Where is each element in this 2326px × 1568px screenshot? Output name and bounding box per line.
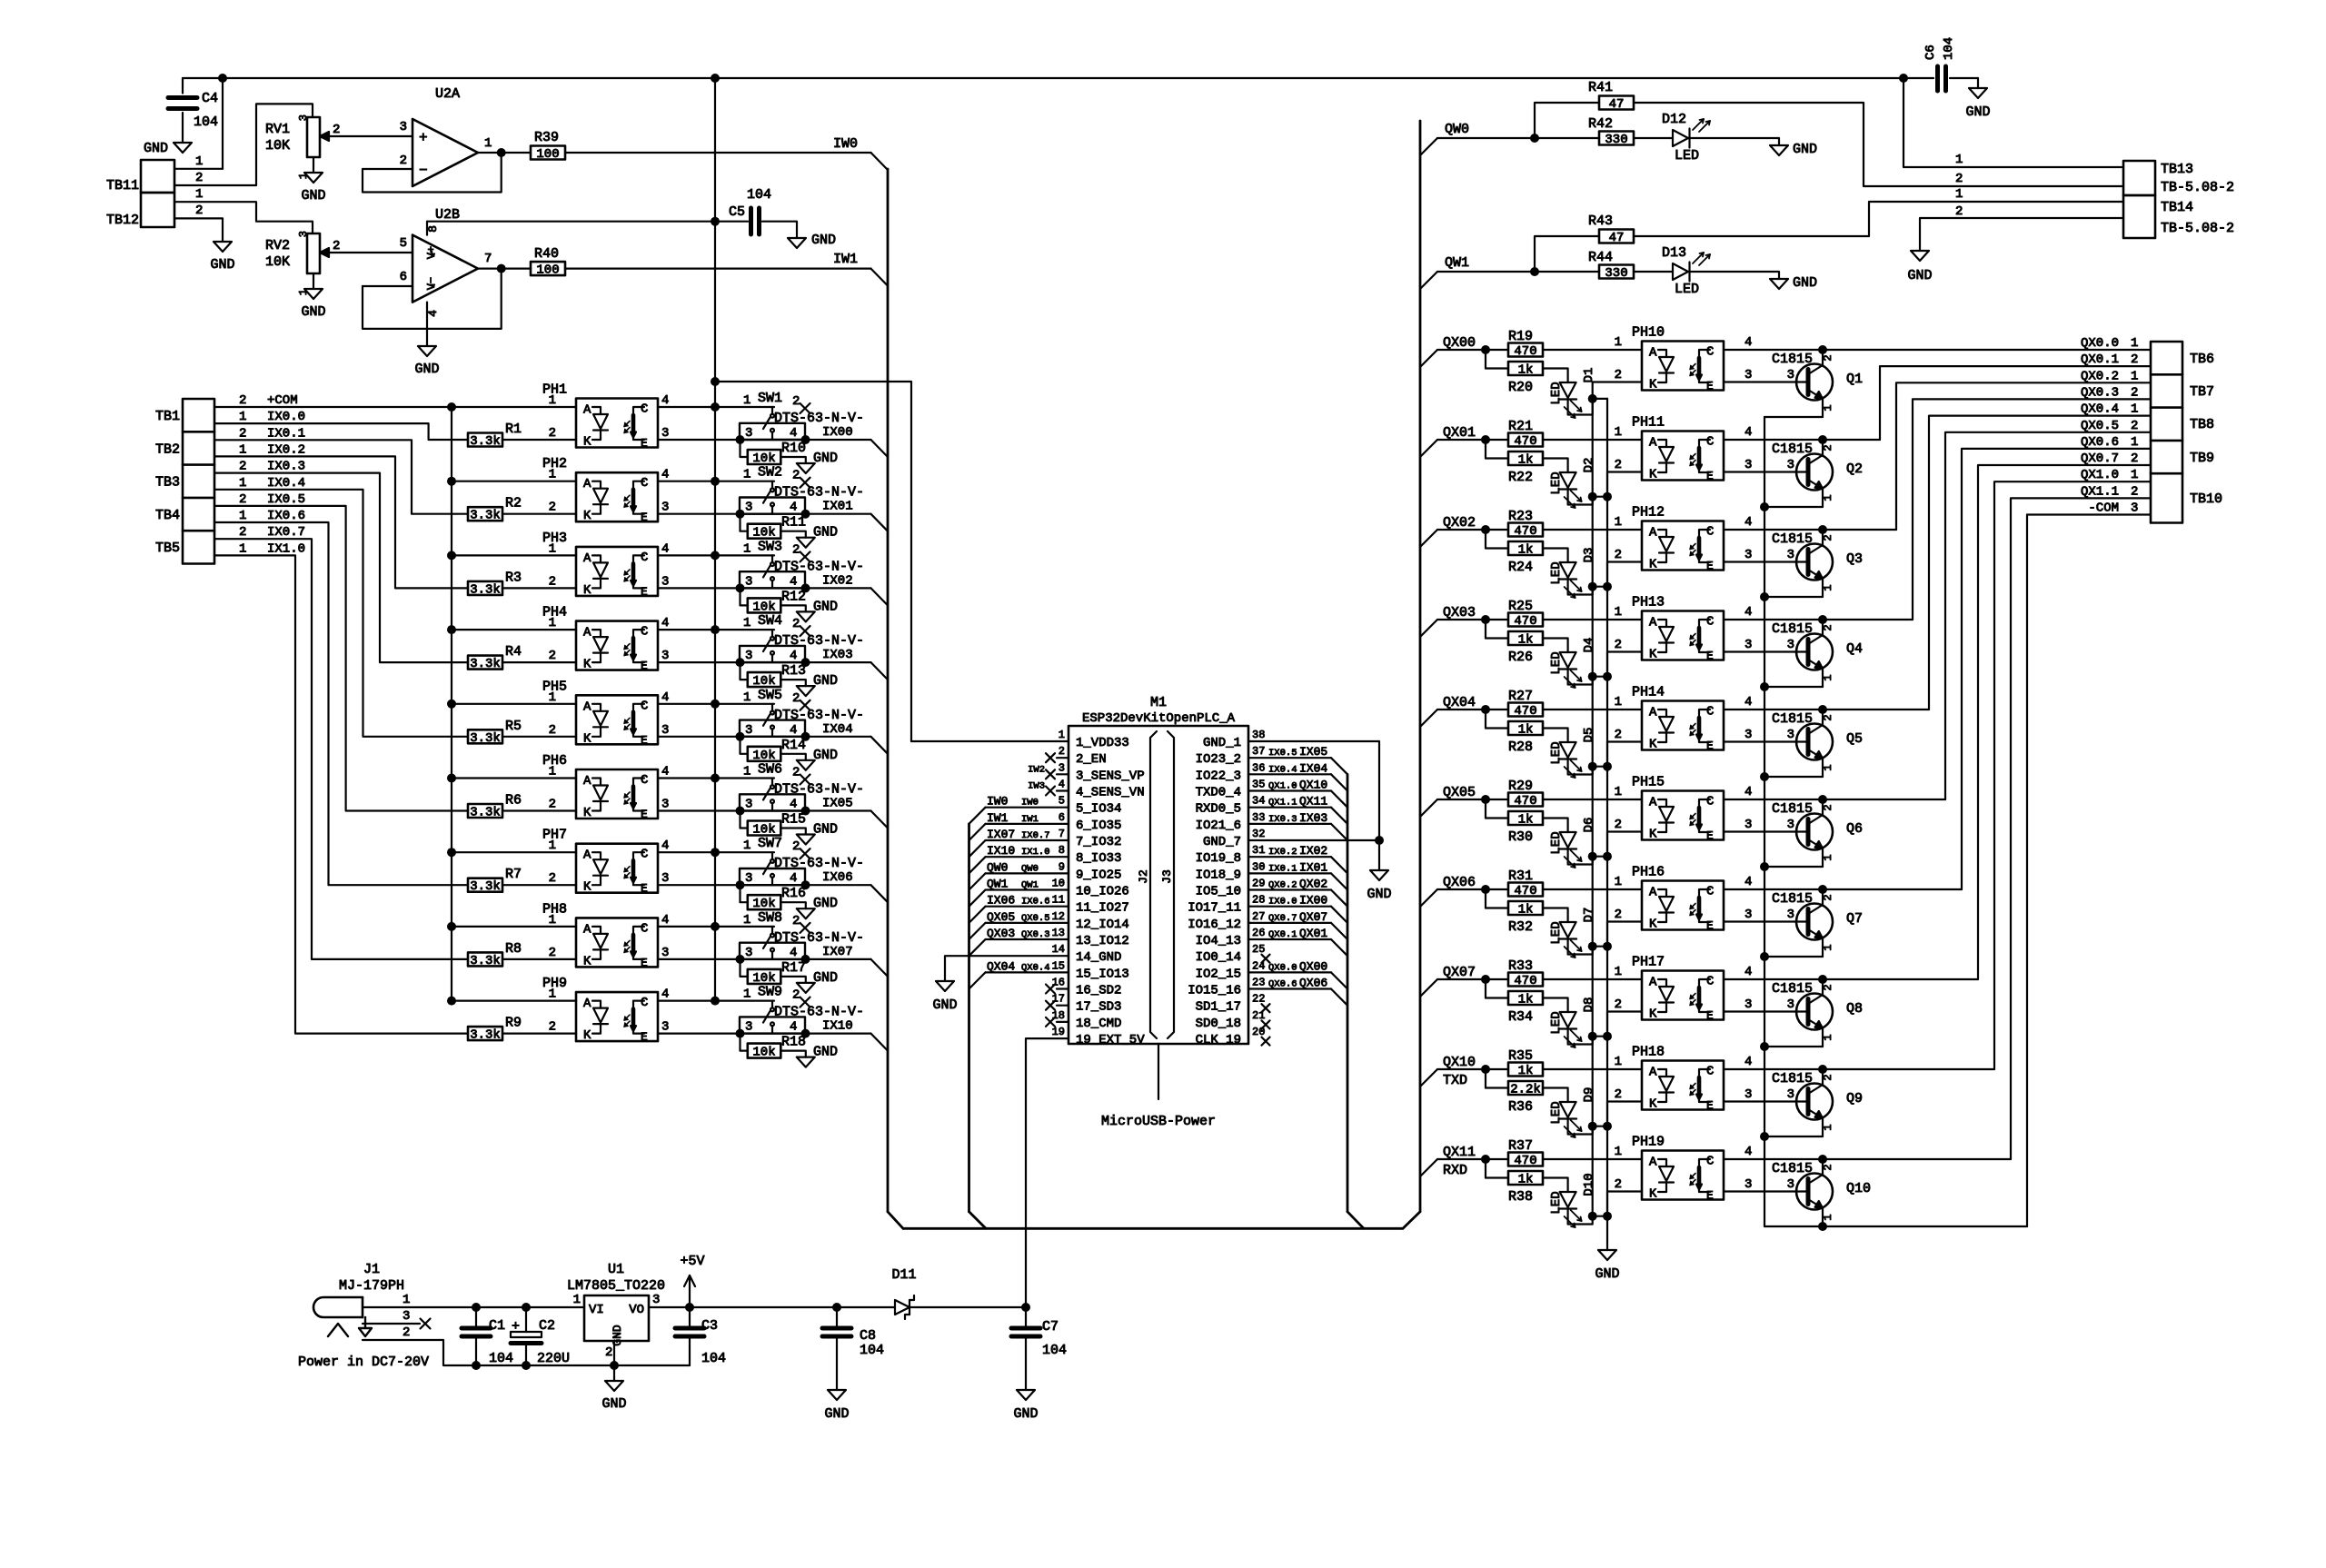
svg-text:GND: GND [1367,887,1391,902]
svg-text:QX03: QX03 [987,927,1015,940]
svg-text:2: 2 [2131,352,2138,367]
svg-text:15_IO13: 15_IO13 [1076,967,1129,981]
svg-text:Q2: Q2 [1846,461,1863,477]
svg-text:1: 1 [743,913,750,928]
svg-text:4: 4 [1744,605,1752,620]
svg-text:QX02: QX02 [1443,515,1476,531]
svg-text:IX04: IX04 [1299,761,1327,775]
svg-text:IX0.4: IX0.4 [267,476,305,491]
svg-text:IO4_13: IO4_13 [1196,934,1241,948]
svg-text:1: 1 [573,1293,581,1307]
svg-text:3: 3 [745,798,752,812]
svg-text:3: 3 [661,871,669,886]
svg-text:LED: LED [1549,382,1564,404]
svg-text:16_SD2: 16_SD2 [1076,984,1121,998]
svg-text:QX0.2: QX0.2 [1268,880,1297,891]
svg-text:R17: R17 [781,960,806,976]
svg-text:3.3k: 3.3k [470,806,501,820]
svg-text:IX0.5: IX0.5 [267,492,305,507]
svg-text:2: 2 [549,723,556,738]
svg-text:TB3: TB3 [155,475,180,491]
svg-text:C1815: C1815 [1772,531,1813,547]
svg-text:8: 8 [426,225,440,233]
svg-text:4: 4 [661,765,669,779]
svg-text:C: C [1706,345,1714,360]
svg-text:4: 4 [1744,1055,1752,1069]
svg-text:PH11: PH11 [1632,415,1665,431]
svg-text:14: 14 [1052,943,1065,956]
svg-text:23: 23 [1252,977,1265,989]
svg-text:CLK_19: CLK_19 [1196,1033,1241,1047]
svg-text:1: 1 [2131,435,2138,450]
svg-text:11: 11 [1052,894,1065,907]
svg-text:A: A [1649,526,1657,541]
svg-text:E: E [1706,380,1714,393]
svg-text:3: 3 [1787,818,1794,832]
svg-text:Power in DC7-20V: Power in DC7-20V [298,1355,429,1370]
svg-text:Q9: Q9 [1846,1091,1863,1107]
svg-text:1: 1 [1615,605,1622,620]
svg-text:K: K [1649,468,1657,482]
svg-text:K: K [1649,1187,1657,1202]
svg-text:4: 4 [790,426,797,441]
svg-text:IW2: IW2 [1028,764,1045,775]
svg-text:PH13: PH13 [1632,595,1665,610]
svg-text:14_GND: 14_GND [1076,950,1121,965]
svg-text:IO19_8: IO19_8 [1196,851,1241,866]
svg-text:Q1: Q1 [1846,372,1863,387]
svg-text:24: 24 [1252,959,1265,972]
svg-text:3: 3 [1787,908,1794,922]
svg-text:104: 104 [1042,1343,1067,1358]
svg-text:104: 104 [489,1351,513,1366]
svg-text:3: 3 [745,1020,752,1035]
svg-text:1: 1 [549,913,556,928]
svg-text:IX1.0: IX1.0 [267,541,305,556]
svg-text:DTS-63-N-V-: DTS-63-N-V- [774,559,864,574]
svg-text:1: 1 [743,765,750,779]
svg-text:1: 1 [1615,515,1622,530]
svg-text:100: 100 [536,263,559,278]
svg-text:IO18_9: IO18_9 [1196,868,1241,882]
svg-text:1k: 1k [1518,993,1534,1007]
svg-text:A: A [583,551,591,566]
svg-text:E: E [641,733,648,747]
svg-text:10k: 10k [752,452,775,466]
svg-text:QW1: QW1 [1445,255,1469,271]
svg-text:1k: 1k [1518,1173,1534,1187]
svg-text:Q5: Q5 [1846,731,1863,747]
svg-text:+5V: +5V [680,1254,704,1269]
svg-text:470: 470 [1514,794,1536,809]
svg-text:IW3: IW3 [1028,781,1045,792]
svg-text:1: 1 [1822,584,1834,590]
svg-text:2: 2 [792,542,800,557]
svg-text:C1815: C1815 [1772,1161,1813,1176]
svg-text:IX03: IX03 [1299,811,1327,825]
svg-text:ESP32DevKitOpenPLC_A: ESP32DevKitOpenPLC_A [1082,711,1236,726]
svg-text:1: 1 [743,987,750,1002]
svg-text:1: 1 [195,154,203,169]
svg-text:3: 3 [1744,1177,1752,1192]
svg-text:QX1.0: QX1.0 [1268,781,1297,792]
svg-text:GND: GND [1793,142,1817,157]
svg-text:QX05: QX05 [987,910,1015,924]
svg-text:J3: J3 [1160,869,1174,884]
svg-text:U1: U1 [608,1262,624,1277]
svg-text:K: K [1649,648,1657,662]
svg-text:1: 1 [549,468,556,482]
svg-text:IO16_12: IO16_12 [1188,918,1241,932]
svg-text:R39: R39 [534,130,559,145]
svg-text:TB8: TB8 [2190,417,2214,432]
svg-text:K: K [583,731,591,746]
svg-text:LED: LED [1675,282,1699,297]
svg-text:8: 8 [1059,844,1065,857]
svg-text:IX0.2: IX0.2 [267,442,305,457]
svg-text:GND: GND [1013,1406,1038,1422]
svg-text:R29: R29 [1508,779,1533,794]
svg-text:TXD0_4: TXD0_4 [1196,786,1241,800]
svg-text:3: 3 [403,1309,410,1324]
svg-text:A: A [1649,1066,1657,1080]
svg-text:PH17: PH17 [1632,955,1665,970]
svg-text:R38: R38 [1508,1189,1533,1205]
svg-text:IO22_3: IO22_3 [1196,769,1241,783]
svg-text:R16: R16 [781,886,806,901]
svg-text:2: 2 [549,946,556,960]
svg-text:38: 38 [1252,729,1265,741]
svg-text:1: 1 [1615,425,1622,440]
svg-text:37: 37 [1252,745,1265,758]
svg-text:QX00: QX00 [1443,335,1476,351]
svg-text:GND: GND [414,362,439,377]
svg-text:GND: GND [813,896,838,911]
svg-text:470: 470 [1514,434,1536,449]
svg-text:2: 2 [403,1325,410,1340]
svg-text:4: 4 [1744,335,1752,350]
svg-text:1: 1 [2131,402,2138,417]
svg-text:R44: R44 [1588,250,1613,265]
svg-text:2: 2 [792,394,800,409]
svg-text:GND: GND [1595,1266,1619,1282]
svg-text:QX0.2: QX0.2 [2081,369,2119,383]
svg-text:J1: J1 [363,1262,380,1277]
svg-text:4: 4 [426,310,440,317]
svg-text:1: 1 [743,839,750,853]
svg-text:2: 2 [1822,804,1834,810]
svg-text:K: K [583,509,591,523]
svg-text:4: 4 [661,839,669,853]
svg-text:E: E [641,437,648,451]
svg-text:104: 104 [194,114,218,130]
svg-text:1: 1 [1822,1034,1834,1040]
svg-text:3: 3 [661,574,669,589]
svg-text:D5: D5 [1582,728,1596,743]
svg-text:4: 4 [1744,875,1752,889]
svg-text:QX07: QX07 [1299,910,1327,924]
svg-text:−: − [419,163,428,179]
svg-text:10k: 10k [752,897,775,911]
svg-text:2: 2 [1615,728,1622,742]
svg-text:R36: R36 [1508,1099,1533,1115]
svg-text:D1: D1 [1582,368,1596,383]
svg-text:1: 1 [549,541,556,556]
svg-text:IX0.1: IX0.1 [267,426,305,441]
svg-text:4: 4 [790,871,797,886]
svg-text:33: 33 [1252,811,1265,824]
svg-text:GND: GND [811,233,836,248]
svg-text:C1815: C1815 [1772,891,1813,907]
svg-text:LED: LED [1549,1101,1564,1124]
svg-text:3: 3 [1787,368,1794,382]
svg-text:R35: R35 [1508,1048,1533,1064]
svg-text:R37: R37 [1508,1138,1533,1154]
svg-text:3: 3 [661,426,669,441]
svg-text:C: C [641,625,648,640]
svg-text:17_SD3: 17_SD3 [1076,1000,1121,1015]
svg-text:20: 20 [1252,1026,1265,1038]
svg-text:IW1: IW1 [1021,814,1039,825]
svg-text:35: 35 [1252,779,1265,791]
svg-text:2: 2 [195,203,203,218]
svg-text:7: 7 [1059,828,1065,840]
svg-text:K: K [583,435,591,450]
svg-text:R26: R26 [1508,650,1533,665]
svg-text:R43: R43 [1588,213,1613,229]
svg-text:2: 2 [1822,984,1834,990]
svg-text:1: 1 [239,509,246,523]
svg-text:3.3k: 3.3k [470,509,501,523]
svg-text:QX00: QX00 [1299,959,1327,973]
svg-text:1k: 1k [1518,633,1534,648]
svg-text:2: 2 [1615,908,1622,922]
svg-text:QX03: QX03 [1443,605,1476,620]
svg-text:TB-5.08-2: TB-5.08-2 [2161,180,2234,195]
svg-text:3: 3 [745,574,752,589]
svg-text:29: 29 [1252,878,1265,890]
svg-text:2: 2 [1615,1087,1622,1102]
svg-text:19_EXT_5V: 19_EXT_5V [1076,1033,1145,1047]
svg-text:R6: R6 [505,793,522,809]
svg-text:3: 3 [1787,1177,1794,1192]
svg-text:MicroUSB-Power: MicroUSB-Power [1101,1114,1216,1129]
svg-text:1: 1 [297,173,310,179]
svg-text:TB14: TB14 [2161,200,2193,215]
svg-text:10k: 10k [752,971,775,986]
svg-text:D6: D6 [1582,818,1596,833]
svg-text:SW2: SW2 [758,465,782,481]
svg-text:RXD0_5: RXD0_5 [1196,802,1241,817]
svg-text:2: 2 [1615,458,1622,472]
svg-text:QW1: QW1 [987,878,1009,891]
svg-text:10k: 10k [752,600,775,614]
svg-text:U2A: U2A [435,86,460,102]
svg-text:QX06: QX06 [1299,977,1327,990]
svg-text:D8: D8 [1582,997,1596,1013]
svg-text:C: C [641,476,648,491]
svg-text:K: K [583,1028,591,1043]
svg-text:Q7: Q7 [1846,911,1863,927]
svg-text:K: K [1649,828,1657,842]
svg-text:3: 3 [661,501,669,515]
svg-text:16: 16 [1052,977,1065,989]
svg-text:4: 4 [790,798,797,812]
svg-text:4: 4 [1059,779,1065,791]
svg-text:1: 1 [549,690,556,705]
svg-text:TXD: TXD [1443,1073,1467,1088]
svg-text:C1815: C1815 [1772,442,1813,457]
svg-text:1: 1 [239,410,246,424]
svg-text:Q3: Q3 [1846,551,1863,567]
svg-text:V+: V+ [425,246,438,259]
svg-text:QX0.6: QX0.6 [1268,979,1297,990]
svg-text:K: K [1649,1097,1657,1112]
svg-text:IX03: IX03 [822,648,853,662]
svg-text:K: K [1649,558,1657,572]
svg-text:1: 1 [1822,674,1834,680]
svg-text:E: E [1706,829,1714,843]
svg-text:A: A [583,403,591,418]
svg-text:GND: GND [813,822,838,838]
svg-text:IX05: IX05 [1299,745,1327,759]
svg-text:1k: 1k [1518,903,1534,918]
svg-text:3: 3 [1059,761,1065,774]
svg-text:470: 470 [1514,524,1536,539]
svg-text:1: 1 [549,765,556,779]
svg-text:1: 1 [484,136,492,151]
svg-text:10: 10 [1052,878,1065,890]
svg-text:DTS-63-N-V-: DTS-63-N-V- [774,1005,864,1020]
svg-text:K: K [583,806,591,820]
svg-text:3: 3 [1744,997,1752,1012]
svg-text:2: 2 [549,798,556,812]
svg-text:5_IO34: 5_IO34 [1076,802,1121,817]
svg-text:4: 4 [790,574,797,589]
svg-text:K: K [1649,738,1657,752]
svg-text:1: 1 [549,393,556,408]
svg-text:2: 2 [239,492,246,507]
svg-text:17: 17 [1052,993,1065,1006]
svg-text:A: A [583,997,591,1011]
svg-text:5: 5 [1059,795,1065,808]
svg-text:QX04: QX04 [1443,695,1476,710]
svg-text:2: 2 [1059,745,1065,758]
svg-text:3: 3 [297,114,310,121]
svg-text:10k: 10k [752,823,775,838]
svg-text:IW0: IW0 [987,795,1008,809]
svg-text:10k: 10k [752,1046,775,1060]
svg-text:R27: R27 [1508,689,1533,704]
svg-text:PH19: PH19 [1632,1135,1665,1150]
svg-text:K: K [1649,378,1657,392]
svg-text:GND: GND [813,673,838,689]
svg-text:10k: 10k [752,674,775,689]
svg-text:330: 330 [1605,266,1627,281]
svg-text:2: 2 [400,154,407,168]
svg-text:2: 2 [792,469,800,483]
svg-text:R34: R34 [1508,1009,1533,1025]
svg-text:QX0.1: QX0.1 [1268,929,1297,940]
svg-text:1: 1 [1615,965,1622,979]
svg-text:10K: 10K [265,138,290,154]
svg-text:GND_7: GND_7 [1203,835,1241,849]
svg-text:C5: C5 [729,204,745,220]
svg-text:DTS-63-N-V-: DTS-63-N-V- [774,782,864,798]
svg-text:12_IO14: 12_IO14 [1076,918,1129,932]
svg-text:TB2: TB2 [155,442,180,457]
svg-text:330: 330 [1605,133,1627,147]
svg-text:6: 6 [1059,811,1065,824]
svg-text:4: 4 [1744,1145,1752,1159]
svg-text:QW0: QW0 [987,860,1008,874]
svg-text:TB12: TB12 [106,213,139,228]
svg-text:1: 1 [1822,1124,1834,1130]
svg-text:R2: R2 [505,496,522,511]
svg-text:2: 2 [549,871,556,886]
svg-text:IW1: IW1 [987,811,1009,825]
svg-text:D7: D7 [1582,908,1596,923]
svg-text:SW6: SW6 [758,762,782,778]
svg-text:PH10: PH10 [1632,325,1665,341]
svg-text:R40: R40 [534,246,559,262]
svg-text:R30: R30 [1508,829,1533,845]
svg-text:220U: 220U [537,1351,570,1366]
svg-text:3: 3 [652,1293,660,1307]
svg-text:K: K [1649,918,1657,932]
svg-text:GND: GND [301,188,325,203]
svg-text:1k: 1k [1518,1064,1534,1078]
svg-text:SW5: SW5 [758,688,782,703]
svg-text:13_IO12: 13_IO12 [1076,934,1129,948]
svg-text:12: 12 [1052,910,1065,923]
svg-text:2_EN: 2_EN [1076,752,1107,767]
svg-text:2: 2 [2131,385,2138,400]
svg-text:GND: GND [1907,268,1932,283]
svg-text:3: 3 [745,723,752,738]
svg-text:1: 1 [1615,1055,1622,1069]
svg-text:GND: GND [813,599,838,614]
svg-text:GND: GND [611,1325,624,1346]
svg-text:R22: R22 [1508,470,1533,485]
svg-text:3: 3 [1787,548,1794,562]
svg-text:C3: C3 [701,1318,718,1334]
svg-text:SD1_17: SD1_17 [1196,1000,1241,1015]
svg-text:PH14: PH14 [1632,685,1665,700]
svg-text:R19: R19 [1508,329,1533,344]
svg-text:C: C [1706,885,1714,899]
svg-text:D9: D9 [1582,1087,1596,1103]
svg-text:SW3: SW3 [758,539,782,554]
svg-text:1: 1 [1822,944,1834,950]
svg-text:2: 2 [2131,452,2138,466]
svg-text:R25: R25 [1508,599,1533,614]
svg-text:IX06: IX06 [987,894,1015,908]
svg-text:R23: R23 [1508,509,1533,524]
svg-text:IO17_11: IO17_11 [1188,901,1241,916]
svg-text:22: 22 [1252,993,1265,1006]
svg-text:R7: R7 [505,867,522,882]
svg-text:3.3k: 3.3k [470,657,501,671]
svg-text:VO: VO [629,1303,644,1317]
svg-text:3: 3 [1787,728,1794,742]
svg-text:D13: D13 [1662,245,1686,261]
svg-text:3.3k: 3.3k [470,954,501,968]
svg-text:SW4: SW4 [758,613,782,629]
svg-text:21: 21 [1252,1009,1265,1022]
svg-text:IX0.0: IX0.0 [1268,897,1297,908]
svg-text:A: A [1649,346,1657,361]
